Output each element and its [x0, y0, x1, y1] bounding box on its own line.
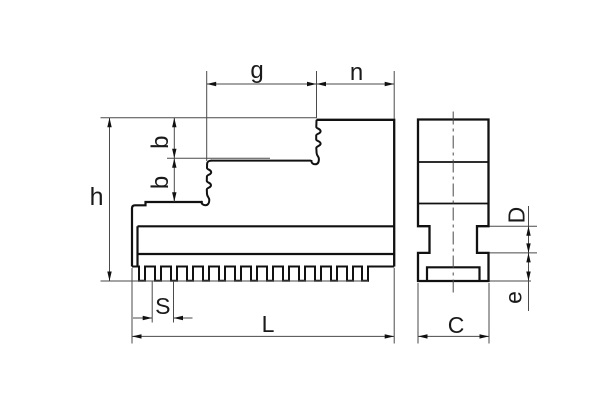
dimension L: extension lines [131, 268, 133, 344]
dimension S lines + outside arrows [133, 317, 152, 319]
svg-text:C: C [448, 312, 465, 338]
dimension L [132, 335, 394, 337]
thin top extension line (h/b datum) [101, 117, 317, 119]
main view: top block outline [317, 120, 395, 267]
svg-text:b: b [147, 176, 174, 189]
svg-text:g: g [250, 57, 263, 84]
svg-text:e: e [501, 291, 527, 304]
svg-text:L: L [262, 311, 275, 337]
dimension C: extension lines [417, 283, 419, 344]
main view: guideway band [138, 226, 395, 266]
main view: bottom serration (square wave) [132, 267, 394, 281]
svg-text:b: b [147, 136, 174, 149]
side view: outline [418, 120, 489, 282]
dimension b (lower) [173, 158, 175, 202]
dimension h [109, 118, 111, 281]
main view: step1 surface [211, 160, 311, 162]
dimension b (upper) [173, 118, 175, 159]
dimension S: extension lines [151, 281, 153, 323]
thin extension at step1 [167, 157, 270, 159]
dimension line g/n [207, 83, 395, 85]
main view: serrated break edge lower (wavy) [201, 161, 211, 206]
side view: bottom groove [427, 267, 480, 281]
svg-text:h: h [90, 183, 104, 211]
svg-text:D: D [504, 207, 530, 224]
dimension C [418, 335, 489, 337]
side view: inner lines [418, 161, 489, 163]
thin bottom extension line (h datum) [101, 280, 369, 282]
svg-text:S: S [155, 293, 170, 319]
main view: left top surface [132, 202, 203, 267]
main view: serrated break edge upper (wavy) [311, 121, 320, 165]
dimension g/n: extension lines [206, 71, 208, 161]
svg-text:n: n [350, 59, 363, 86]
dimension D/e: extension lines [490, 225, 538, 227]
side view: centerline [452, 112, 454, 297]
dimension D/e vertical [528, 206, 530, 311]
